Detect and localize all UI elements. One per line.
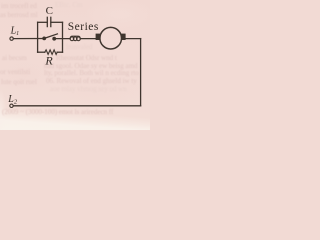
wire box right vertical	[62, 22, 64, 52]
brush right	[121, 34, 125, 40]
wire L1 to box	[13, 38, 43, 40]
brush left	[96, 34, 100, 40]
svg-text:C: C	[46, 5, 53, 17]
switch (centrifugal)	[42, 34, 57, 41]
wire box bottom-left segment	[38, 51, 45, 53]
wire box left vertical	[37, 22, 39, 52]
ghost bleed-through text (decorative)	[1, 3, 37, 10]
wire bottom horizontal	[13, 105, 140, 107]
svg-text:R: R	[44, 53, 53, 67]
svg-text:Series: Series	[68, 21, 99, 33]
wire switch to box right	[54, 38, 70, 40]
wire box bottom-right segment	[57, 51, 62, 53]
svg-text:L2: L2	[7, 94, 18, 106]
wire box top-right segment	[51, 21, 63, 23]
terminal L2	[10, 104, 13, 107]
wire right vertical	[140, 39, 142, 106]
wire coil to left brush	[81, 38, 96, 40]
capacitor C	[47, 17, 51, 26]
svg-text:L1: L1	[10, 26, 20, 38]
motor armature M	[100, 27, 122, 49]
terminal L1	[10, 37, 13, 40]
wire box top-left segment	[38, 21, 48, 23]
series field coil	[70, 36, 80, 40]
wire right brush to corner	[126, 38, 141, 40]
resistor R zigzag	[45, 50, 57, 55]
